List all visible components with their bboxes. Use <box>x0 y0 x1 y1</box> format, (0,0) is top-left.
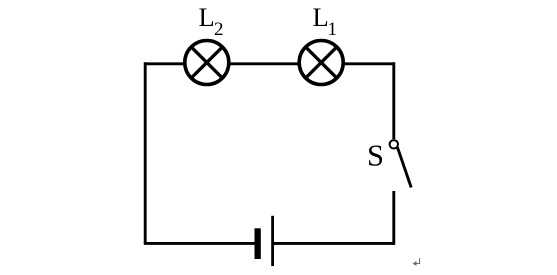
svg-text:S: S <box>367 138 384 172</box>
svg-text:L: L <box>313 2 329 32</box>
svg-text:1: 1 <box>328 19 338 40</box>
svg-text:2: 2 <box>214 19 224 40</box>
svg-text:L: L <box>199 2 215 32</box>
